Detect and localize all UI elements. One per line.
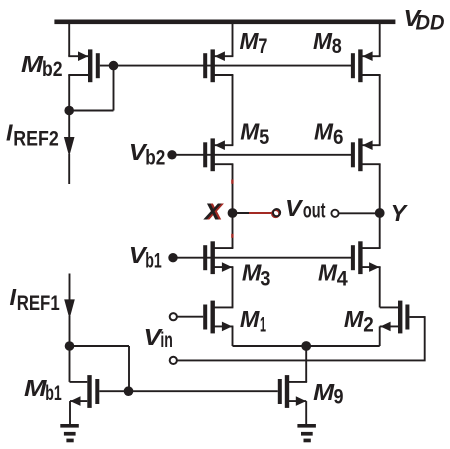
terminal Vin- circle — [170, 357, 177, 364]
svg-text:REF1: REF1 — [17, 292, 60, 315]
svg-text:M: M — [313, 379, 335, 405]
wire Vin- to M2 gate — [177, 316, 425, 360]
svg-text:2: 2 — [363, 313, 374, 336]
label X — [202, 199, 224, 225]
wire M8 drain to M6 source — [379, 75, 381, 145]
wire M5 drain to node X — [232, 164, 234, 213]
node tail junction — [301, 341, 311, 351]
label Vin — [144, 324, 173, 352]
svg-text:M: M — [313, 28, 333, 54]
wire gate line Mb2 to M7 M8 — [100, 65, 351, 67]
svg-text:M: M — [21, 51, 44, 77]
label M7 — [240, 28, 268, 58]
label IREF1 — [10, 284, 60, 315]
current source IREF2 arrow — [64, 111, 75, 185]
label M3 — [242, 260, 271, 291]
svg-text:6: 6 — [333, 126, 344, 149]
transistor M2 (NMOS, mirrored) — [380, 301, 425, 334]
wire Mb1 diode loop vertical — [128, 346, 130, 391]
node Mb1 gate junction — [124, 386, 134, 396]
node IREF1 junction — [65, 341, 75, 351]
svg-text:REF2: REF2 — [13, 127, 59, 150]
svg-text:9: 9 — [334, 385, 344, 408]
label M4 — [318, 260, 348, 291]
transistor M4 (NMOS) — [351, 241, 381, 274]
wire M7 source to rail — [232, 22, 234, 56]
svg-text:5: 5 — [259, 126, 269, 149]
label M1 — [240, 306, 266, 336]
wire M2 source down — [379, 326, 381, 346]
svg-text:M: M — [240, 28, 260, 54]
wire M9 source to ground — [305, 401, 307, 424]
transistor M3 (NMOS) — [203, 241, 233, 274]
terminal Vb1 dot — [168, 253, 177, 262]
wire Y to M4 drain — [379, 213, 381, 248]
svg-text:I: I — [6, 119, 13, 145]
current source IREF1 arrow — [64, 274, 75, 347]
svg-text:out: out — [303, 200, 326, 223]
label Mb1 — [24, 375, 62, 405]
label Mb2 — [21, 51, 63, 81]
wire M7 drain to M5 source — [232, 75, 234, 145]
wire M8 source to rail — [379, 22, 381, 56]
wire Vin+ to M1 gate — [177, 316, 203, 318]
red tick on M5 drain wire — [231, 180, 233, 184]
label M5 — [240, 119, 269, 149]
terminal red circle — [272, 210, 279, 217]
label M9 — [313, 379, 343, 408]
label VDD — [404, 5, 445, 35]
wire Mb2 drain down — [68, 75, 70, 112]
svg-text:M: M — [318, 260, 338, 286]
terminal Vb2 dot — [167, 150, 176, 159]
wire Mb1 source to ground — [69, 401, 71, 424]
svg-text:Y: Y — [391, 200, 409, 226]
ground under Mb1 — [60, 424, 79, 442]
wire Vb2 line to M5 M6 gates — [172, 154, 351, 156]
svg-text:M: M — [242, 260, 262, 286]
svg-text:I: I — [10, 284, 17, 310]
transistor M6 (PMOS) — [351, 138, 381, 171]
svg-text:b2: b2 — [145, 147, 165, 170]
wire diode loop horizontal — [69, 110, 113, 112]
svg-text:4: 4 — [337, 267, 348, 290]
wire M4 source to M2 drain — [379, 267, 381, 307]
label IREF2 — [6, 119, 59, 150]
wire common source node — [233, 345, 380, 347]
terminal circle black overlay — [273, 209, 280, 216]
wire M1 source down — [232, 326, 234, 346]
label M8 — [313, 28, 342, 58]
svg-text:X: X — [202, 199, 222, 225]
label M6 — [314, 119, 344, 149]
svg-text:M: M — [240, 119, 260, 145]
label Vb2 — [129, 139, 166, 170]
transistor M8 (PMOS) — [351, 49, 381, 82]
node Mb2 drain-gate junction — [64, 106, 74, 116]
node Mb2 gate junction — [109, 61, 119, 71]
svg-text:7: 7 — [258, 35, 267, 58]
transistor M9 (NMOS) — [278, 375, 307, 408]
svg-text:M: M — [240, 306, 260, 332]
VDD rail — [54, 20, 395, 25]
svg-text:M: M — [24, 375, 47, 401]
transistor M1 (NMOS) — [203, 301, 233, 334]
svg-text:3: 3 — [260, 267, 270, 290]
svg-text:b1: b1 — [145, 250, 162, 273]
wire diode loop vertical — [113, 66, 115, 111]
wire X stub black — [233, 212, 251, 214]
svg-text:in: in — [160, 329, 173, 352]
wire Mb1 gate to M9 gate — [129, 390, 278, 392]
label M2 — [344, 306, 374, 336]
node X — [228, 208, 238, 218]
svg-text:b2: b2 — [42, 58, 63, 81]
wire Mb1 drain down — [69, 346, 71, 382]
svg-text:8: 8 — [332, 35, 342, 58]
wire M6 drain to node Y — [379, 164, 381, 213]
wire Mb1 diode loop top — [70, 345, 130, 347]
node Y — [375, 208, 385, 218]
label Vb1 — [129, 242, 162, 273]
transistor M5 (PMOS) — [203, 138, 233, 171]
wire M9 drain up — [305, 346, 307, 382]
svg-text:1: 1 — [260, 313, 266, 336]
red tick below X — [231, 234, 233, 238]
wire Vb1 line to M3 M4 gates — [173, 257, 351, 259]
svg-text:DD: DD — [416, 12, 445, 35]
wire X stub red — [249, 212, 272, 214]
terminal Vin+ circle — [170, 313, 177, 320]
svg-text:b1: b1 — [45, 382, 62, 405]
terminal Vout circle — [331, 210, 338, 217]
wire X to M3 drain — [232, 213, 234, 248]
wire M3 source to M1 drain — [232, 267, 234, 307]
svg-text:M: M — [314, 119, 334, 145]
transistor Mb2 (PMOS, mirrored) — [68, 49, 100, 82]
label Vout — [285, 195, 325, 223]
transistor Mb1 (NMOS, mirrored) — [70, 375, 130, 408]
svg-text:M: M — [344, 306, 364, 332]
wire Vout to Y — [339, 212, 380, 214]
transistor M7 (PMOS) — [203, 49, 233, 82]
ground under M9 — [297, 424, 316, 442]
wire Mb2 source to rail — [68, 22, 70, 56]
svg-text:V: V — [285, 195, 303, 221]
